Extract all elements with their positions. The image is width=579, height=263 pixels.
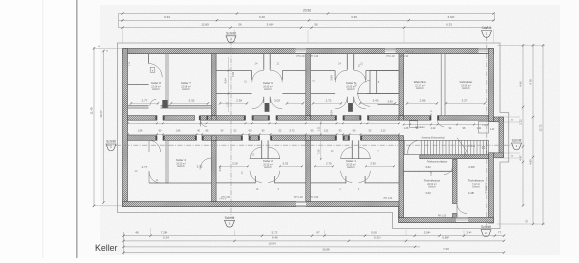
door arc from corridor left bay [149,140,161,152]
corridor north wall seg [438,116,489,121]
section line 1 horizontal [107,144,513,146]
cell partition left [217,182,256,184]
stair door arc [408,141,417,155]
extension line bottom [324,230,326,235]
cross wall C bottom through protrusion [399,140,404,217]
door arc bay cell-left [341,171,353,183]
door arc top bay upper-right [270,70,282,82]
exterior wall bottom main [123,202,404,207]
cell stub right [364,176,366,183]
door arc right side left bay [200,158,212,170]
corridor south wall seg [271,136,306,141]
extension line bottom [150,228,152,235]
cell stub right [274,176,276,183]
door arc small room lower [358,94,370,107]
corridor south wall seg [163,136,197,141]
exterior wall right upper [489,49,494,122]
corridor north wall seg [201,116,246,121]
dim col left inner [103,50,105,203]
pier dark [348,103,353,112]
corridor south wall seg [310,136,336,141]
extension line top [234,30,236,44]
window top wall 2 [385,49,396,54]
bay inner box [479,122,489,134]
protrusion left wall [399,207,404,218]
building outer contour line [118,43,509,229]
wall stub south junction [212,136,217,141]
cross wall A top [212,54,217,116]
section line 3 vertical [230,41,232,219]
door arc small room upper [358,81,370,94]
corridor north wall seg [163,116,195,121]
door arc bay lower-left [250,147,262,159]
door arc bay cell-left [250,171,262,183]
stair tread [420,140,422,154]
cell partition left [311,182,346,184]
window sign [150,67,155,72]
closet wall K8 [148,54,150,64]
cross wall B top [306,54,311,116]
dim col right 2 [532,44,534,225]
dim row bottom 3 [124,246,421,248]
corridor north wall seg [404,116,431,121]
cell line y70 left [311,70,335,72]
closet shelf K8 [128,84,149,86]
door arc bay lower-left [341,147,353,159]
corridor north wall seg [310,116,336,121]
extension line bottom [463,230,465,235]
dim row top segments [119,19,495,21]
cell stub right top bay [365,71,367,80]
corridor south wall seg [343,136,350,141]
door arc top bay lower-right [270,97,282,109]
door arc telekom [444,166,453,175]
cross wall A bottom [212,140,217,201]
extension line top [307,30,309,44]
door jambs [155,116,157,121]
door arc technik [457,204,467,214]
door arc top bay lower-right [354,97,366,109]
corridor north wall seg [343,116,361,121]
bay bottom wall [494,153,504,158]
wall stub north junction [399,116,404,121]
label shelf line [250,158,280,160]
corridor dim line lower [128,133,399,135]
door arc bay cell-right [268,171,280,183]
interior vdim line [228,57,230,112]
extension line bottom [405,230,407,235]
corridor south wall seg [249,136,260,141]
cell line y93 right [282,93,305,95]
cross wall B bottom [306,140,311,201]
cell line y93 left [217,93,252,95]
extension line top [493,30,495,44]
dim row top sub [119,27,487,29]
partition y183 left bay [149,182,212,184]
cell partition right [365,182,399,184]
entry wall right bottom bay [358,140,360,158]
door arc top bay upper-left [252,70,264,82]
wall K8 south a [128,105,149,107]
cell line y93 right [366,93,399,95]
wall stub north junction [306,116,311,121]
wall stub south junction [399,136,404,141]
entry wall left top bay [346,54,348,70]
corridor north wall seg [128,116,158,121]
window top wall 3 [479,49,489,54]
bay top wall [494,117,504,122]
door jambs [241,136,243,141]
extension line top [403,30,405,44]
entry wall left bottom bay [261,140,263,158]
corridor north wall seg [276,116,306,121]
dim row top total [119,13,495,15]
page fold line faint [42,0,44,258]
corridor north wall seg [368,116,400,121]
door jambs [335,136,337,141]
section line 2 vertical [486,36,488,226]
corridor south wall seg [361,136,400,141]
door jambs [195,136,197,141]
exterior wall top [123,49,494,54]
door arc top bay upper-right [354,70,366,82]
door arc K8 closet [149,64,163,78]
protrusion bottom wall [399,218,494,223]
door arc top bay lower-left [335,97,347,109]
wall stub south junction [306,136,311,141]
corridor north wall seg [252,116,270,121]
dim col left outer [93,47,95,206]
door jambs [429,116,431,121]
partition Keller7/8 [166,54,168,107]
technik divider wall lower [453,214,458,218]
cell partition right [275,182,306,184]
cell stub left [345,176,347,183]
door jambs [155,136,157,141]
extension line top [122,30,124,44]
cell line y70 right [282,70,305,72]
window bottom wall [296,202,306,207]
cell stub left top bay [334,71,336,80]
exterior wall left [123,49,128,207]
dim left connector bottom [123,232,125,255]
cell stub left top bay [251,71,253,80]
partition Wasch/Fahrraeder [441,54,445,116]
telekom partition [404,170,453,172]
door arc top bay upper-left [335,70,347,82]
entry wall right top bay [269,54,271,70]
wall stub north junction [212,116,217,121]
partition y104 [378,103,400,105]
door jambs [244,116,246,121]
partition x370 [369,70,371,93]
entry wall right bottom bay [267,140,269,158]
pier dark [162,100,167,108]
window protrusion bottom wall [456,218,468,223]
staircase outline [404,140,488,154]
stair south wall hatched [420,155,489,159]
corridor dim line upper [128,122,399,124]
vorraum dim line [404,124,488,126]
exterior wall right lower [489,153,494,223]
corridor south wall seg [128,136,158,141]
entry wall left top bay [263,54,265,70]
door arc bay lower-right [268,147,280,159]
door jambs [348,136,350,141]
door arc bay lower-right [359,147,371,159]
pier dark [265,103,270,112]
cell stub left [254,176,256,183]
entry wall left bottom bay [351,140,353,158]
extension line bottom [234,230,236,235]
cell line y70 right [366,70,399,72]
vorraum door box [409,121,417,128]
partition y70 [370,69,399,71]
door jambs [359,116,361,121]
door arc vorraum [438,120,444,126]
door jambs [258,136,260,141]
door jambs [335,116,337,121]
dim row bottom 4 [124,252,505,254]
entry wall right top bay [353,54,355,70]
door arc K8 south [150,99,156,105]
window top wall 1 [296,49,307,54]
door arc bay cell-right [359,171,371,183]
wall K7 south [161,105,212,107]
cross wall C top [399,54,404,116]
dim col right 1 [522,44,524,206]
corridor south wall seg [202,136,243,141]
stair break line [457,138,467,151]
page border line [76,0,78,258]
cell line y70 left [217,70,252,72]
door jambs [268,116,270,121]
dim row bottom 1 [124,235,505,237]
cell line y93 left [311,93,335,95]
interior vdim at wall B [320,121,322,160]
bay right wall [499,117,504,158]
partition y93 [357,93,399,95]
technik divider wall upper [453,160,458,204]
door arc top bay lower-left [252,97,264,109]
partition bottom left bay [166,140,168,183]
door jambs [199,116,201,121]
door arc corridor at x200 [201,120,207,126]
door arc left bay inner [149,171,161,183]
cell stub right top bay [281,71,283,80]
label shelf line [341,158,371,160]
dim col right 3 [542,44,544,225]
dim row bottom 2 [124,240,505,242]
partition x376 [376,70,378,93]
